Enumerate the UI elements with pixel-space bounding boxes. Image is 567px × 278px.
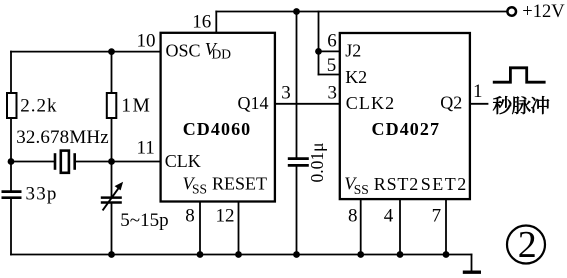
wire crystal right to CLK pin11 xyxy=(76,161,161,163)
wire CD4060 pin8 xyxy=(199,202,201,255)
crystal X1 body xyxy=(61,151,69,173)
svg-text:5: 5 xyxy=(327,55,337,76)
node junction gnd pin8 CD4060 xyxy=(197,251,204,258)
svg-text:Q2: Q2 xyxy=(440,93,462,113)
svg-text:12: 12 xyxy=(216,206,235,227)
wire CD4060 pin12 xyxy=(238,202,240,255)
wire ground bus bottom xyxy=(11,254,472,256)
crystal X1 right plate xyxy=(73,153,76,170)
node junction gnd 0.01u xyxy=(293,251,300,258)
svg-text:CD4027: CD4027 xyxy=(372,119,441,139)
wire pin10 OSC net xyxy=(11,51,161,53)
svg-text:Q14: Q14 xyxy=(238,93,269,113)
node junction crystal left xyxy=(8,158,15,165)
wire trimmer bottom lead xyxy=(111,204,113,255)
label miao (second) glyph xyxy=(493,96,511,114)
svg-text:2.2k: 2.2k xyxy=(20,95,57,116)
crystal X1 left plate xyxy=(54,153,57,170)
wire CD4027 pin8 xyxy=(360,199,362,254)
capacitor C1 33p plates xyxy=(2,192,22,198)
svg-text:CLK2: CLK2 xyxy=(346,93,395,113)
wire ground drop xyxy=(471,255,473,271)
wire J2/K2 feed vertical xyxy=(318,12,320,75)
svg-text:3: 3 xyxy=(328,82,338,103)
node junction 1M top xyxy=(108,48,115,55)
wire pin16 stub xyxy=(215,12,217,33)
wire decoupling-cap rail upper xyxy=(296,12,298,158)
node junction gnd pin7 xyxy=(443,251,450,258)
wire trimmer top lead xyxy=(111,162,113,197)
figure number circled 2 xyxy=(507,226,545,264)
node junction gnd pin8 CD4027 xyxy=(357,251,364,258)
svg-text:0.01μ: 0.01μ xyxy=(307,142,327,182)
wire 2.2k bottom lead xyxy=(10,118,12,162)
svg-text:J2: J2 xyxy=(345,40,361,60)
svg-text:RST2: RST2 xyxy=(374,174,419,194)
svg-text:RESET: RESET xyxy=(212,174,267,194)
IC U2 CD4027 box xyxy=(340,33,470,199)
label mai (pulse) glyph xyxy=(512,96,531,114)
wire CD4027 pin4 xyxy=(399,199,401,254)
svg-text:DD: DD xyxy=(212,47,232,62)
capacitor C2 trimmer arrow xyxy=(103,187,120,211)
svg-text:8: 8 xyxy=(185,206,195,227)
node junction crystal right xyxy=(108,158,115,165)
wire Q14 to CLK2 net xyxy=(275,103,340,105)
wire 1M bottom lead xyxy=(111,118,113,162)
wire 33p bottom lead xyxy=(10,199,12,255)
pulse waveform icon xyxy=(493,68,546,82)
wire Q2 pin1 stub xyxy=(470,103,488,105)
svg-text:SS: SS xyxy=(192,182,207,197)
svg-text:OSC: OSC xyxy=(166,40,201,60)
resistor R1 2.2k xyxy=(7,93,17,118)
svg-text:11: 11 xyxy=(137,138,155,159)
node junction gnd pin4 xyxy=(397,251,404,258)
wire crystal left xyxy=(11,161,54,163)
capacitor C2 trimmer plates xyxy=(101,198,122,203)
svg-text:3: 3 xyxy=(281,82,291,103)
svg-text:1: 1 xyxy=(473,81,483,102)
node junction gnd pin12 xyxy=(235,251,242,258)
node junction gnd trimmer xyxy=(108,251,115,258)
wire 1M top lead xyxy=(111,52,113,93)
node junction top bus / 0.01u xyxy=(293,8,300,15)
svg-text:6: 6 xyxy=(327,30,337,51)
IC U1 CD4060 box xyxy=(161,33,275,202)
svg-text:+12V: +12V xyxy=(522,2,565,22)
wire 33p top lead xyxy=(10,162,12,191)
wire K2 pin5 stub xyxy=(319,74,340,76)
wire +12V top bus xyxy=(216,11,506,13)
svg-text:K2: K2 xyxy=(345,67,367,87)
power terminal +12V xyxy=(507,7,516,16)
svg-text:SS: SS xyxy=(354,182,369,197)
svg-text:33p: 33p xyxy=(26,184,58,205)
svg-text:CLK: CLK xyxy=(165,151,201,171)
wire CD4027 pin7 xyxy=(445,199,447,254)
svg-text:1M: 1M xyxy=(121,95,151,116)
wire J2 pin6 stub xyxy=(319,50,340,52)
svg-text:7: 7 xyxy=(432,206,442,227)
resistor R2 1M xyxy=(107,93,117,118)
svg-text:4: 4 xyxy=(384,206,394,227)
svg-text:10: 10 xyxy=(137,31,156,52)
svg-text:16: 16 xyxy=(192,11,211,32)
node junction J2 xyxy=(315,48,322,55)
svg-text:5~15p: 5~15p xyxy=(120,210,168,231)
label chong glyph xyxy=(531,96,549,114)
svg-text:2: 2 xyxy=(518,224,537,266)
wire decoupling-cap rail lower xyxy=(296,167,298,255)
svg-text:SET2: SET2 xyxy=(421,174,468,194)
wire 2.2k top lead xyxy=(10,52,12,93)
svg-text:8: 8 xyxy=(348,206,358,227)
ground xyxy=(463,271,481,274)
capacitor C3 0.01u plates xyxy=(288,159,309,166)
svg-text:CD4060: CD4060 xyxy=(183,119,252,139)
svg-text:32.678MHz: 32.678MHz xyxy=(16,127,109,148)
